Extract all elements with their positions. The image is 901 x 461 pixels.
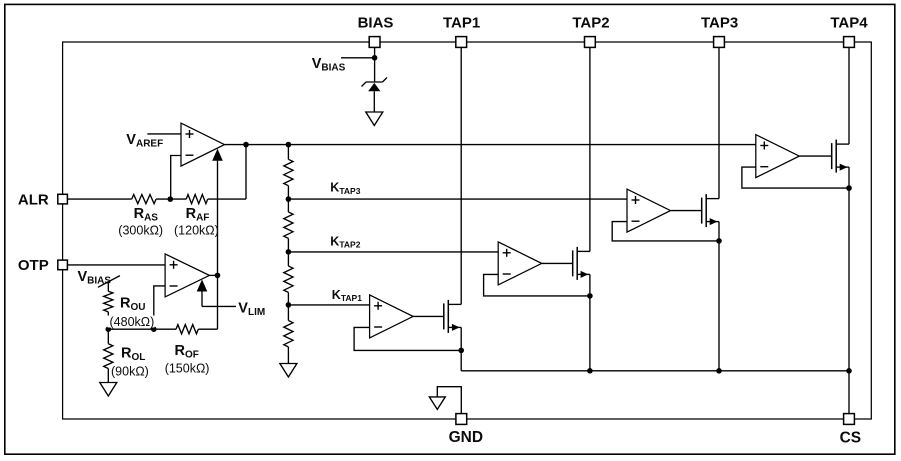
resistor RAF	[186, 195, 208, 204]
transistor Q1 channel bar	[447, 300, 449, 333]
terminal TAP2	[585, 37, 596, 48]
wire Q4 source to bus	[848, 188, 850, 371]
wire VAREF input	[147, 133, 181, 135]
node ROF left	[151, 326, 157, 332]
node Q2 source	[587, 293, 593, 299]
terminal ALR	[58, 194, 68, 204]
resistor ladder R4	[284, 321, 293, 347]
wire RAF feedback riser	[245, 145, 247, 200]
wire U2 limit into U1	[217, 161, 219, 276]
wire source bus	[461, 370, 849, 372]
wire Q3 drain	[706, 198, 719, 200]
wire ladder seg1	[287, 145, 289, 160]
terminal OTP	[58, 260, 68, 270]
wire U2 output	[209, 274, 217, 276]
wire VBIAS label stub	[341, 57, 375, 59]
wire KTAP2 line	[288, 251, 498, 253]
wire Q2 source	[577, 273, 590, 275]
ground below ladder	[280, 364, 297, 378]
wire ladder seg3	[287, 238, 289, 266]
wire U5 feedback	[612, 222, 719, 241]
transistor Q3 gate bar	[701, 198, 703, 224]
terminal CS	[844, 414, 855, 425]
transistor Q4 channel bar	[835, 140, 837, 173]
wire ladder seg2	[287, 186, 289, 212]
op-amp U6	[756, 135, 800, 178]
svg-text:(120kΩ): (120kΩ)	[174, 223, 219, 237]
resistor RAS	[132, 195, 156, 204]
transistor Q1 gate bar	[443, 303, 445, 329]
wire OTP input	[68, 264, 165, 266]
wire Q2 source to bus	[589, 296, 591, 371]
ground below ROL	[100, 383, 117, 397]
node bus TAP2	[587, 368, 593, 374]
wire ROU to junction	[107, 312, 109, 329]
node KTAP3	[286, 196, 292, 202]
wire U6 output to gate	[799, 155, 831, 157]
node RAS-RAF junction	[168, 196, 174, 202]
wire U3 output to gate	[413, 315, 444, 317]
wire U3 feedback	[354, 327, 461, 350]
wire U6 feedback	[742, 167, 849, 188]
wire ladder seg4	[287, 292, 289, 320]
transistor Q4 gate bar	[831, 143, 833, 169]
svg-text:OTP: OTP	[18, 257, 49, 274]
op-amp U3	[370, 295, 414, 338]
transistor Q3 channel bar	[705, 194, 707, 227]
svg-text:(480kΩ): (480kΩ)	[110, 315, 155, 329]
svg-text:CS: CS	[840, 429, 862, 446]
wire U2 output to ROF	[217, 275, 219, 329]
terminal TAP4	[844, 37, 855, 48]
svg-text:(300kΩ): (300kΩ)	[118, 223, 163, 237]
svg-text:TAP4: TAP4	[830, 15, 868, 32]
node KTAP2	[286, 249, 292, 255]
resistor ladder R1	[284, 159, 293, 185]
wire Q1 source	[448, 326, 461, 328]
node ladder top	[286, 142, 292, 148]
wire ROL to ground	[107, 369, 109, 383]
wire KTAP3 line	[288, 198, 627, 200]
node U1 feedback	[243, 142, 249, 148]
wire divider to ROF node	[108, 328, 154, 330]
op-amp U2	[165, 254, 209, 297]
svg-text:(90kΩ): (90kΩ)	[111, 365, 149, 379]
wire VLIM arrow into U2	[201, 292, 203, 307]
svg-text:GND: GND	[449, 429, 483, 446]
node Q1 source	[458, 348, 464, 354]
svg-text:BIAS: BIAS	[358, 15, 394, 32]
wire U2 inverting input	[154, 286, 165, 329]
resistor ladder R2	[284, 212, 293, 238]
ground at GND pin	[429, 397, 445, 410]
label ROU value	[108, 316, 155, 328]
terminal TAP1	[456, 37, 467, 48]
wire ROF lead	[154, 328, 176, 330]
wire GND pin riser	[437, 387, 461, 414]
wire Q1 drain	[448, 303, 461, 305]
op-amp U4	[498, 242, 542, 285]
wire Q3 source	[706, 221, 719, 223]
node divider junction	[106, 326, 112, 332]
wire U1 inverting input	[171, 156, 181, 200]
wire Q4 drain	[836, 143, 849, 145]
zener diode D1	[366, 81, 383, 83]
node Q3 source	[716, 238, 722, 244]
resistor ROL	[104, 344, 113, 369]
wire ladder to ground	[287, 347, 289, 364]
VBIAS tick	[98, 276, 120, 288]
svg-text:TAP1: TAP1	[443, 15, 480, 32]
node KTAP1	[286, 302, 292, 308]
resistor ROU	[104, 291, 113, 312]
resistor ladder R3	[284, 266, 293, 292]
chip boundary	[63, 42, 872, 419]
wire U4 feedback	[484, 274, 590, 296]
wire ALR to RAS	[68, 198, 132, 200]
wire ROF to U2 output	[198, 328, 217, 330]
wire Q4 source	[836, 166, 849, 168]
terminal GND	[456, 414, 467, 425]
wire VBIAS to ROU	[107, 281, 109, 291]
svg-text:(150kΩ): (150kΩ)	[165, 362, 210, 376]
wire U4 output to gate	[542, 262, 573, 264]
terminal BIAS	[369, 37, 380, 48]
wire RAS to RAF	[156, 198, 186, 200]
svg-text:TAP2: TAP2	[572, 15, 609, 32]
node U2 output	[215, 273, 221, 279]
node VBIAS junction	[372, 55, 378, 61]
resistor ROF	[176, 325, 198, 334]
transistor Q2 channel bar	[576, 247, 578, 280]
op-amp U5	[627, 189, 671, 232]
svg-text:TAP3: TAP3	[701, 15, 738, 32]
wire Q2 drain	[577, 250, 590, 252]
wire VLIM label stub	[202, 305, 236, 307]
wire Q1 source to bus	[460, 350, 462, 370]
ground below zener	[366, 112, 383, 126]
terminal TAP3	[714, 37, 725, 48]
svg-text:ALR: ALR	[18, 192, 49, 209]
wire RAF to feedback riser	[208, 198, 246, 200]
wire KTAP1 line	[288, 304, 369, 306]
node bus TAP3	[716, 368, 722, 374]
wire junction to ROL	[107, 329, 109, 344]
node bus CS corner	[846, 368, 852, 374]
wire Q3 source to bus	[718, 241, 720, 371]
op-amp U1	[181, 123, 225, 166]
transistor Q2 gate bar	[572, 250, 574, 276]
node Q4 source	[846, 185, 852, 191]
wire U1 output bus	[225, 144, 756, 146]
wire U5 output to gate	[671, 210, 702, 212]
wire bus to CS	[848, 371, 850, 414]
wire BIAS to zener	[374, 47, 376, 82]
